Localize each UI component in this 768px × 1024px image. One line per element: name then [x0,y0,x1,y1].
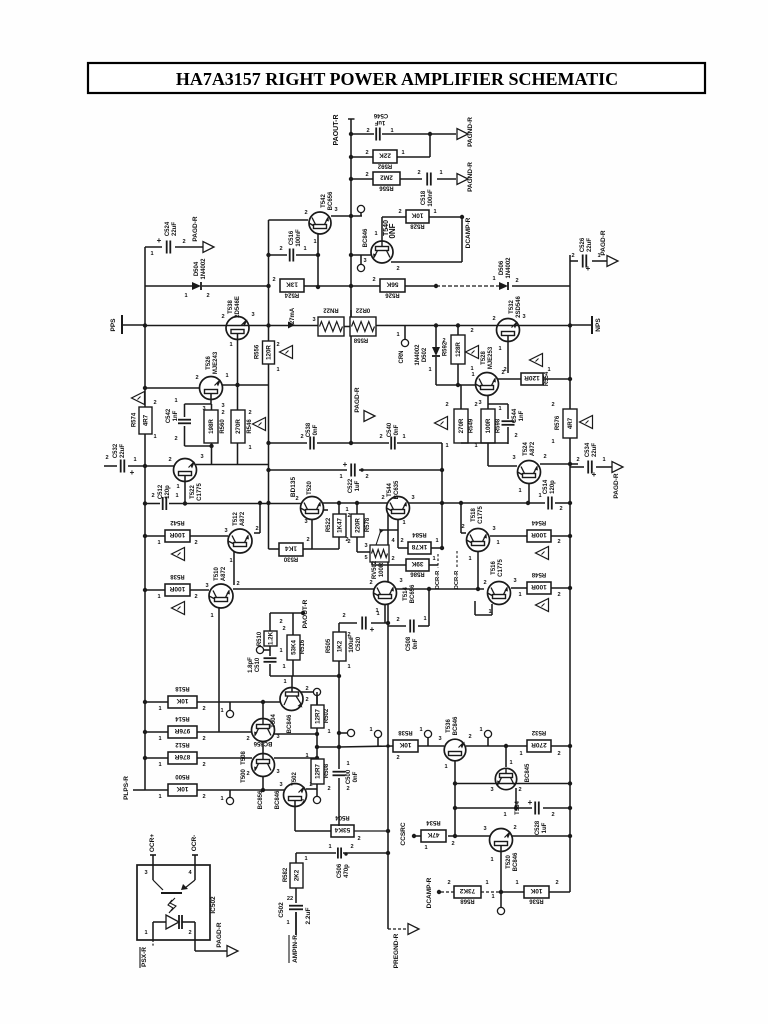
svg-text:2: 2 [559,506,562,512]
wire T542 collector to trunk [331,215,362,217]
capacitor C544 1nF [507,404,509,419]
transistor T544 BC635 [387,497,410,520]
svg-text:1: 1 [286,920,289,926]
svg-text:R574: R574 [132,412,138,427]
svg-text:3: 3 [492,526,495,532]
svg-text:2: 2 [366,128,369,134]
svg-text:3: 3 [304,519,307,525]
svg-text:T512: T512 [233,512,239,526]
svg-text:R556: R556 [255,344,261,359]
svg-text:1: 1 [374,231,377,237]
svg-text:OCR+: OCR+ [149,834,156,852]
svg-text:1: 1 [305,753,308,759]
svg-text:1: 1 [301,799,304,805]
svg-text:+: + [592,470,597,479]
svg-text:D506: D506 [499,260,505,275]
svg-text:R548: R548 [531,571,546,577]
svg-text:R502: R502 [324,708,330,723]
node PSX-R [152,940,154,947]
wire T514 emitter [384,604,386,623]
transistor T512 A872 [228,529,252,553]
svg-text:2: 2 [417,170,420,176]
svg-text:C538: C538 [306,422,312,437]
svg-text:2K2: 2K2 [294,869,301,881]
wire left trunk [144,247,146,790]
svg-text:73K2: 73K2 [459,887,475,894]
transistor T506 BC846 [280,688,303,711]
svg-text:2: 2 [276,342,279,348]
wire bottom row y853 [296,852,336,854]
svg-text:1: 1 [369,727,372,733]
svg-text:3: 3 [363,258,366,264]
svg-text:10K: 10K [530,887,542,894]
svg-text:C540: C540 [387,422,393,437]
svg-text:1: 1 [157,594,160,600]
svg-text:2: 2 [514,433,517,439]
svg-text:1K2: 1K2 [337,640,344,652]
svg-text:100R: 100R [485,418,492,433]
resistor R524 13K [280,279,304,292]
resistor R586 39K [371,562,373,565]
svg-text:A872: A872 [221,566,227,581]
svg-text:876R: 876R [174,753,190,760]
svg-text:PAGD-R: PAGD-R [600,230,607,255]
svg-text:R526: R526 [385,292,400,298]
svg-text:2: 2 [105,455,108,461]
svg-text:1K4: 1K4 [285,544,297,551]
svg-text:1: 1 [401,150,404,156]
svg-text:C542: C542 [166,408,172,423]
svg-text:3: 3 [522,314,525,320]
svg-text:1: 1 [313,239,316,245]
resistor R510 1.2K [269,613,271,631]
svg-text:C1775: C1775 [197,483,203,501]
resistor R578 220R [356,503,358,514]
wire main row y286 [145,285,192,287]
svg-text:2: 2 [327,786,330,792]
wire T524 base row [488,465,517,467]
svg-text:13K: 13K [286,280,298,287]
svg-text:2: 2 [503,367,506,373]
transistor T540 BC846 [371,241,393,263]
warning triangle below R538 [172,602,185,615]
svg-text:PLPS-R: PLPS-R [123,776,130,800]
svg-text:1: 1 [396,332,399,338]
svg-text:5: 5 [364,555,367,561]
svg-text:2: 2 [379,434,382,440]
svg-text:3: 3 [312,317,315,323]
capacitor C534 22uF [570,466,584,468]
svg-text:3: 3 [411,495,414,501]
svg-text:1: 1 [229,342,232,348]
wire trunk V2 [268,220,270,549]
wire right trunk V5 [569,255,571,892]
resistor R584 1K78 [398,547,408,549]
svg-text:100R: 100R [169,585,185,592]
svg-text:1K47: 1K47 [337,518,344,533]
svg-text:PAGD-R: PAGD-R [354,387,361,412]
svg-text:PAGD-R: PAGD-R [216,922,223,947]
svg-text:1: 1 [248,445,251,451]
svg-text:C520: C520 [356,636,362,651]
svg-text:56K: 56K [386,280,398,287]
svg-text:47K: 47K [427,831,439,838]
svg-text:PAOUT-R: PAOUT-R [333,115,340,146]
svg-text:220R: 220R [355,518,362,533]
resistor R574 4R7 [139,407,152,434]
svg-text:1: 1 [547,367,550,373]
svg-text:1: 1 [347,664,350,670]
svg-text:1: 1 [282,664,285,670]
capacitor C528 1uF [534,802,536,815]
svg-text:R500: R500 [175,773,190,779]
svg-text:1: 1 [419,727,422,733]
diode D506 1N4002 [499,282,508,290]
wire C516 row [269,254,288,256]
wire main row y503 [169,503,301,505]
transistor T516 C1775 [488,582,511,605]
terminal open circle near R510 [269,646,271,650]
svg-text:T526: T526 [206,356,212,370]
terminal open circle below R500 row [229,790,231,797]
svg-text:BC846: BC846 [287,714,293,733]
resistor R528 10K [406,210,429,223]
svg-text:3: 3 [224,528,227,534]
svg-text:T544: T544 [387,483,393,497]
wire C532 row [104,465,117,467]
wire R530 row [269,548,280,550]
svg-text:2: 2 [202,736,205,742]
resistor RN22 second [350,317,376,336]
svg-text:470p: 470p [344,864,350,878]
svg-text:270R: 270R [235,419,242,434]
svg-text:1: 1 [402,520,405,526]
svg-text:1: 1 [225,373,228,379]
svg-text:R534: R534 [426,819,441,825]
connector PAGD-R left top [203,242,214,253]
svg-text:2: 2 [365,474,368,480]
wire row y589 right [396,588,484,590]
wire C542 top rail [185,403,212,405]
svg-text:DCAMP-R: DCAMP-R [465,217,472,248]
svg-text:2: 2 [202,794,205,800]
svg-text:2: 2 [202,762,205,768]
warning triangle left trunk [132,392,145,405]
svg-text:2: 2 [551,402,554,408]
svg-text:D504: D504 [194,261,200,276]
svg-text:C506: C506 [337,863,343,878]
svg-text:2: 2 [347,632,350,638]
wire T512 emitter to T510 [233,552,235,585]
svg-text:BC635: BC635 [394,480,400,499]
svg-text:1: 1 [346,761,349,767]
svg-text:0NF: 0NF [388,223,397,238]
svg-text:PAGND-R: PAGND-R [467,117,474,147]
svg-text:1: 1 [176,484,179,490]
svg-text:MJE253: MJE253 [488,346,494,369]
svg-text:198R: 198R [208,419,215,434]
capacitor C538 0nF [309,437,311,450]
transistor T528 MJE253 [476,373,499,396]
svg-text:2: 2 [236,581,239,587]
svg-text:2: 2 [305,686,308,692]
svg-text:4R7: 4R7 [567,417,574,429]
svg-text:1.8pF: 1.8pF [248,657,254,673]
warning triangle right of R546 [253,418,266,431]
resistor R546 270R [231,410,245,443]
svg-text:120p: 120p [165,485,171,499]
svg-text:AMPIN-R: AMPIN-R [292,935,299,963]
connector PAGD-R mid [364,411,375,422]
svg-text:120p: 120p [550,480,556,494]
trimmer RV502 100R [357,551,370,553]
optocoupler diode [153,921,166,923]
wire T542 emitter column [317,234,319,287]
svg-text:BC846: BC846 [453,716,459,735]
transistor T532 circle [497,319,520,342]
svg-text:T524: T524 [523,442,529,456]
svg-text:2: 2 [357,836,360,842]
terminal open circle above T540 [357,205,364,212]
svg-text:T528: T528 [481,351,487,365]
transistor T532 slot bar [502,332,515,336]
svg-text:53K4: 53K4 [291,640,298,655]
wire T536 collector row [466,745,527,747]
capacitor C506 470p [337,848,339,859]
wire T526 collector row [222,384,269,386]
wire T520b collector [512,835,570,837]
svg-text:NPS: NPS [595,318,602,332]
svg-text:2: 2 [300,434,303,440]
warning triangle right of R576 [580,416,593,429]
svg-text:+: + [157,236,162,245]
svg-text:R592: R592 [377,163,392,169]
svg-text:2: 2 [543,454,546,460]
svg-text:270R: 270R [458,418,465,433]
warning triangle near R592 [466,346,479,359]
svg-text:3: 3 [478,400,481,406]
svg-text:BC845: BC845 [525,763,531,782]
svg-text:1N4002: 1N4002 [201,258,207,280]
capacitor C534 22uF branch [570,463,578,465]
svg-text:1: 1 [304,856,307,862]
svg-text:120R: 120R [266,345,273,360]
svg-text:T538: T538 [228,300,234,314]
resistor R502 12R7 [316,692,318,705]
svg-text:1K78: 1K78 [411,543,427,550]
transistor T520 BD135 [301,497,324,520]
svg-text:C532: C532 [113,443,119,458]
svg-text:2: 2 [246,771,249,777]
svg-text:2: 2 [447,880,450,886]
resistor R568 73K2 [454,886,481,898]
svg-text:R568: R568 [460,898,475,904]
svg-text:2: 2 [445,402,448,408]
svg-text:2: 2 [396,617,399,623]
svg-text:10K: 10K [399,741,411,748]
svg-text:2: 2 [557,592,560,598]
svg-text:2: 2 [246,736,249,742]
svg-text:1: 1 [303,246,306,252]
transistor T520b BC846 [490,829,513,852]
svg-text:T542: T542 [321,194,327,208]
resistor R556b 56K [380,279,405,292]
wire T518 emitter [477,551,479,589]
svg-text:1: 1 [220,796,223,802]
resistor R598 100R [481,409,495,443]
wire R528 row [382,216,406,218]
svg-text:1: 1 [158,762,161,768]
connector PAGD-R right top [607,256,618,267]
svg-text:2: 2 [347,513,350,519]
svg-text:2: 2 [474,402,477,408]
wire T526 pin3 stub [210,394,212,405]
capacitor C524 22uF [166,241,168,254]
svg-text:2: 2 [346,786,349,792]
svg-text:C502: C502 [278,902,285,918]
svg-text:100R: 100R [531,583,547,590]
capacitor C520 100uF [361,617,363,630]
resistor R530 1K4 [279,543,303,556]
capacitor C502 2.2uF [295,888,297,903]
svg-text:R518: R518 [175,685,190,691]
wire trunk above RN22 [350,310,352,317]
svg-text:976R: 976R [174,727,190,734]
svg-text:53K4: 53K4 [334,826,350,833]
svg-text:T508: T508 [241,751,247,765]
svg-text:22uF: 22uF [172,222,178,236]
optocoupler LED zigzag [170,898,176,911]
svg-text:1: 1 [424,845,427,851]
resistor R504 53K4 [295,830,331,832]
capacitor C518 100nF [426,173,428,186]
resistor R592 22K [373,150,397,163]
svg-text:1.2K: 1.2K [268,631,275,645]
svg-text:22uF: 22uF [592,443,598,457]
short dash right of T520 [324,509,328,511]
wire row y808 [455,807,532,809]
svg-text:3: 3 [205,583,208,589]
svg-text:0R22: 0R22 [355,307,370,313]
wire C526 branch [570,260,578,262]
connector PAGD-R right mid [612,462,623,473]
svg-text:3: 3 [438,736,441,742]
svg-text:1: 1 [229,558,232,564]
svg-text:R524: R524 [284,292,299,298]
resistor R538b 10K [339,746,393,747]
wire T510 emitter column [218,607,220,732]
svg-text:R542: R542 [170,519,185,525]
svg-text:1: 1 [492,276,495,282]
svg-text:1: 1 [175,493,178,499]
transistor T514 BC656 [374,582,397,605]
transistor T522 C1775 [174,459,197,482]
svg-text:120R: 120R [524,374,540,381]
svg-text:2: 2 [483,580,486,586]
svg-text:OCR-: OCR- [191,835,198,852]
svg-text:128R: 128R [455,342,462,357]
svg-text:R528: R528 [410,223,425,229]
svg-text:C516: C516 [289,230,295,245]
svg-text:2: 2 [305,697,308,703]
optocoupler phototransistor [152,865,154,880]
svg-text:PPS: PPS [110,318,117,332]
svg-text:1: 1 [488,609,491,615]
transistor T502 BC846 [284,784,307,807]
transistor T538 slot bar and emitter [231,330,244,334]
svg-text:1: 1 [435,538,438,544]
svg-text:2: 2 [557,751,560,757]
svg-text:1: 1 [518,488,521,494]
svg-text:R598: R598 [496,418,502,433]
wire T536 emitter column [454,755,456,836]
svg-text:1: 1 [602,457,605,463]
svg-text:1: 1 [519,751,522,757]
svg-text:1: 1 [503,812,506,818]
svg-text:1: 1 [390,128,393,134]
terminal open circles above R538b row [377,738,379,746]
svg-text:1: 1 [158,736,161,742]
wire T520 emitter [311,519,313,549]
capacitor C522 1uF [350,464,352,477]
svg-text:R578: R578 [365,517,371,532]
svg-text:1: 1 [498,346,501,352]
svg-text:C534: C534 [585,442,591,457]
svg-text:1: 1 [491,894,494,900]
svg-text:C544: C544 [512,408,518,423]
svg-text:0nF: 0nF [413,638,419,649]
terminal open circle below T540 [357,264,364,271]
svg-text:2: 2 [151,493,154,499]
svg-text:1: 1 [327,729,330,735]
svg-text:T534: T534 [515,801,521,815]
svg-text:3: 3 [490,787,493,793]
svg-text:R538: R538 [398,729,413,735]
svg-text:1: 1 [210,613,213,619]
svg-text:2: 2 [194,540,197,546]
svg-text:R549: R549 [469,418,475,433]
svg-text:BC656: BC656 [328,191,334,210]
svg-text:3: 3 [276,769,279,775]
svg-text:C526: C526 [580,237,586,252]
warning triangle below R542 [172,548,185,561]
svg-text:2: 2 [571,253,574,259]
svg-text:1: 1 [279,648,282,654]
svg-text:R560: R560 [220,419,226,434]
wire R516 column [292,613,294,635]
svg-text:R532: R532 [531,729,546,735]
capacitor C516 100nF [289,249,291,262]
svg-text:R516: R516 [300,639,306,654]
svg-text:R558: R558 [353,337,368,343]
svg-text:C512: C512 [158,484,164,499]
wire CCSRC row [412,834,416,838]
wire T542 base row [269,219,309,221]
wire T532 emitter to T528 [507,336,509,374]
svg-text:+: + [343,460,348,469]
svg-text:10K: 10K [176,697,188,704]
svg-text:1: 1 [339,474,342,480]
resistor R518 10K [145,701,168,703]
svg-text:3: 3 [221,403,224,409]
capacitor C540 0nF [390,437,392,450]
terminal open circle below T520b [497,907,504,914]
wire BC845 pin3 row [455,783,570,785]
transistor T542 BC656 [309,212,331,234]
wire T520b emitter [500,846,502,908]
svg-text:2D546E: 2D546E [235,296,241,318]
svg-text:C524: C524 [165,221,171,236]
